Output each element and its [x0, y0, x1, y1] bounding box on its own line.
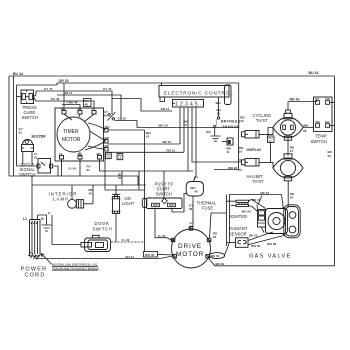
- interior lamp box top wire: [32, 184, 146, 186]
- svg-text:Y-BK 49: Y-BK 49: [66, 101, 78, 105]
- wire GY 47: [36, 87, 112, 114]
- wire igniter feed: [227, 195, 237, 247]
- wire WH 43 vertical: [144, 130, 146, 252]
- power cord label: [21, 267, 48, 279]
- svg-text:BR 15: BR 15: [163, 140, 172, 144]
- svg-text:WH: WH: [216, 101, 221, 105]
- ground GN dryness: [206, 128, 221, 141]
- svg-text:DISPLAY: DISPLAY: [247, 148, 263, 152]
- svg-text:18: 18: [217, 112, 221, 116]
- ON light top pins: [112, 194, 120, 196]
- drive motor M1: [172, 229, 211, 268]
- svg-text:57: 57: [118, 157, 122, 161]
- svg-text:WH 22: WH 22: [228, 166, 238, 170]
- press care switch: [21, 90, 38, 120]
- wire drop to timer: [63, 83, 65, 111]
- svg-text:SWITCH: SWITCH: [19, 172, 36, 177]
- svg-text:RD 42: RD 42: [290, 98, 300, 102]
- label PU 48 boxed: [84, 99, 92, 107]
- svg-text:WH 28: WH 28: [267, 242, 277, 246]
- svg-text:WH 43: WH 43: [145, 253, 155, 257]
- display connector P2: [242, 159, 260, 167]
- svg-text:10: 10: [239, 150, 243, 154]
- svg-text:LAMP: LAMP: [53, 197, 69, 202]
- node BU 44 top-right: [309, 71, 319, 75]
- power cord ground: [38, 211, 52, 231]
- cycling thermostat TH1: [253, 110, 304, 140]
- wire GY 50: [115, 117, 138, 128]
- timer assembly box: [55, 108, 104, 161]
- wire BK 32: [209, 259, 335, 267]
- svg-text:TH'ST: TH'ST: [256, 118, 268, 123]
- wire left outer border: [8, 76, 10, 176]
- svg-text:48: 48: [85, 103, 89, 107]
- wire staircase to control: [112, 99, 173, 112]
- svg-text:Y: Y: [91, 107, 93, 111]
- node BU 44 top-left: [13, 72, 23, 76]
- wire timer bottom-right drop: [105, 152, 145, 190]
- svg-text:YL 33: YL 33: [122, 238, 130, 242]
- wire RD 23 igniter to valve: [249, 198, 266, 209]
- svg-text:50: 50: [19, 131, 23, 135]
- svg-text:GN: GN: [206, 130, 211, 134]
- gas valve V1 body right: [283, 205, 301, 238]
- timer terminal pins bottom: [59, 152, 102, 159]
- wire inner top left loop: [17, 85, 58, 166]
- svg-text:YL: YL: [59, 152, 63, 156]
- svg-text:PU 46: PU 46: [51, 97, 60, 101]
- wire BK 54 with sleeve: [209, 191, 283, 258]
- wire Y-BK 49: [62, 101, 80, 111]
- thermal fuse F1: [186, 176, 217, 211]
- svg-text:61: 61: [87, 168, 91, 172]
- svg-text:GY 50: GY 50: [118, 117, 127, 121]
- wire WH control bottom: [216, 97, 221, 117]
- wire L1 riser: [31, 176, 33, 220]
- note neutral line: [41, 254, 100, 271]
- wire top border BU44 bus: [9, 75, 335, 77]
- wire RD 13: [108, 149, 184, 153]
- svg-text:DRIVE: DRIVE: [178, 243, 202, 250]
- wire buzzer bus: [17, 165, 39, 167]
- wire left inner bus: [13, 76, 15, 176]
- label PU 57 boxed: [268, 128, 275, 163]
- wire OR 20: [57, 79, 239, 132]
- svg-text:GAS VALVE: GAS VALVE: [249, 254, 292, 260]
- timer terminal pins top: [61, 107, 96, 114]
- wire display2 left: [239, 159, 242, 161]
- wire press care right: [34, 91, 37, 101]
- wire vertical x139: [138, 171, 140, 190]
- dryness sensor electrodes: [214, 117, 241, 129]
- wire strip pin1: [179, 107, 181, 144]
- wire YL 34 to motor: [155, 209, 173, 242]
- svg-text:43: 43: [146, 135, 150, 139]
- svg-text:MOTOR: MOTOR: [176, 251, 204, 258]
- wire push-start feed: [163, 171, 165, 198]
- svg-text:BK 25: BK 25: [249, 234, 258, 238]
- svg-text:WH 24: WH 24: [242, 210, 252, 214]
- svg-text:SWITCH: SWITCH: [93, 227, 113, 232]
- wire temp switch right top: [330, 102, 335, 104]
- svg-text:PU: PU: [77, 107, 81, 111]
- connector on WH43 line: [142, 199, 147, 208]
- svg-text:20: 20: [240, 119, 244, 123]
- ON light DS2: [112, 196, 135, 214]
- wire WH 24 igniter to valve: [242, 206, 259, 214]
- svg-text:58: 58: [303, 129, 307, 133]
- wire WH 43 from timer: [108, 130, 151, 139]
- svg-text:DOOR: DOOR: [95, 221, 110, 226]
- interior lamp DS1: [49, 192, 84, 209]
- wire temp switch right bottom: [330, 125, 335, 127]
- wire strip pin3: [187, 107, 189, 171]
- svg-text:PU: PU: [78, 152, 82, 156]
- control side connector: [225, 85, 232, 105]
- svg-text:YL 34: YL 34: [158, 234, 166, 238]
- svg-text:WH 16: WH 16: [159, 124, 169, 128]
- node N: [41, 217, 44, 221]
- igniter E1: [230, 200, 249, 219]
- wire BU 41: [34, 255, 173, 259]
- wire WH 16: [137, 124, 239, 128]
- wire door switch left: [52, 215, 81, 245]
- svg-text:BU 41: BU 41: [126, 255, 135, 259]
- svg-text:FUSE: FUSE: [202, 205, 213, 210]
- wire ON light bottom: [115, 214, 117, 243]
- svg-text:OR 14: OR 14: [64, 91, 73, 95]
- svg-text:BUZZER: BUZZER: [32, 135, 47, 139]
- label RD 10: [239, 146, 244, 154]
- wire ON light top: [115, 185, 117, 197]
- svg-text:48: 48: [104, 114, 108, 118]
- svg-text:35: 35: [213, 235, 217, 239]
- svg-text:SWITCH: SWITCH: [22, 115, 39, 120]
- svg-text:SWITCH: SWITCH: [311, 139, 328, 144]
- wire BK 25 sensor to valve: [248, 232, 273, 241]
- svg-text:35: 35: [34, 156, 38, 160]
- wire press care left: [17, 96, 22, 98]
- svg-text:BK 32: BK 32: [216, 262, 225, 266]
- wire timer bottom drops: [62, 159, 100, 176]
- wire cycling right to temp: [303, 124, 314, 133]
- timer line contact: [104, 110, 116, 121]
- svg-text:52: 52: [328, 154, 332, 158]
- svg-text:WH 26: WH 26: [251, 244, 261, 248]
- timer terminal pins right: [104, 125, 110, 151]
- svg-text:40: 40: [89, 192, 93, 196]
- wire radiant sensor left: [227, 242, 236, 244]
- svg-text:MOTOR: MOTOR: [62, 137, 81, 143]
- wire display2 right: [259, 162, 273, 168]
- push to start switch S3: [147, 182, 183, 209]
- wire display left bus: [239, 132, 243, 171]
- svg-text:WH: WH: [303, 124, 308, 128]
- wire YL 33 door to junction: [111, 238, 145, 242]
- control stub terminal: [160, 83, 165, 102]
- svg-text:RADIANT: RADIANT: [229, 226, 248, 231]
- svg-text:ELECTRONIC CONTROL: ELECTRONIC CONTROL: [164, 90, 234, 95]
- gas valve label: [249, 254, 292, 260]
- wire RD 21 cycling to hi-limit: [288, 138, 295, 157]
- buzzer BZ: [22, 135, 47, 152]
- svg-text:BU 44: BU 44: [13, 72, 23, 76]
- wire display1 right: [259, 128, 273, 135]
- display connector P1: [242, 131, 260, 139]
- wire RD 20: [240, 116, 245, 124]
- svg-text:BK 54: BK 54: [261, 191, 270, 195]
- svg-text:GY 47: GY 47: [44, 87, 53, 91]
- wire WH 22: [214, 166, 239, 170]
- wire BU 40 drop: [118, 171, 122, 185]
- wire cycle switch right: [53, 166, 59, 176]
- motor terminal right-upper: [207, 238, 211, 241]
- svg-text:WH: WH: [105, 125, 110, 129]
- svg-text:TEMP: TEMP: [315, 134, 327, 139]
- wire RD 42: [288, 98, 317, 110]
- label WH 43 boxed: [144, 252, 173, 258]
- connector small RD 11: [222, 138, 233, 154]
- electronic control U1: [159, 86, 234, 98]
- svg-text:40: 40: [118, 176, 122, 180]
- svg-text:TH'ST: TH'ST: [252, 179, 264, 184]
- wire hi-limit bottom RD 55: [288, 181, 295, 207]
- gas valve mid body: [266, 209, 288, 234]
- motor terminal left-lower: [173, 255, 177, 258]
- wire PU 46: [36, 97, 94, 111]
- svg-text:50: 50: [183, 123, 187, 127]
- svg-text:BK 54: BK 54: [211, 254, 220, 258]
- svg-text:YL 45: YL 45: [68, 167, 76, 171]
- label GY 50 left: [19, 127, 23, 135]
- svg-text:55: 55: [290, 196, 294, 200]
- timer motor TM: [57, 117, 90, 152]
- label PU 57 boxed small: [117, 154, 123, 161]
- svg-text:RD 13: RD 13: [167, 149, 176, 153]
- wire GY 36 fuse to motor: [189, 196, 194, 229]
- hi-limit thermostat TH2: [247, 154, 304, 184]
- svg-text:L1: L1: [23, 217, 27, 221]
- wire right border: [334, 76, 336, 266]
- svg-text:GY 47: GY 47: [103, 87, 112, 91]
- svg-text:OR 20: OR 20: [59, 79, 69, 83]
- svg-text:SENSOR: SENSOR: [229, 232, 247, 237]
- radiant sensor RS: [229, 226, 248, 247]
- svg-text:GY: GY: [194, 176, 198, 180]
- motor terminal top: [189, 227, 193, 230]
- temp switch S2: [311, 97, 333, 144]
- wire strip pin5 BK 50: [183, 107, 196, 181]
- svg-text:45: 45: [195, 190, 199, 194]
- wire lower bus y171: [100, 170, 194, 172]
- wire strip pin2: [183, 107, 185, 152]
- wire buzzer terminals: [23, 152, 38, 167]
- terminal strip pins 1 2 3 4 5: [173, 100, 204, 108]
- svg-text:BU 44: BU 44: [309, 71, 319, 75]
- timer cam lines: [64, 114, 106, 157]
- svg-text:OR 14: OR 14: [161, 107, 170, 111]
- svg-text:DRYNESS: DRYNESS: [221, 120, 241, 124]
- wire bottom-left bus: [9, 176, 138, 185]
- svg-text:LIGHT: LIGHT: [122, 201, 135, 206]
- wire WH 26 WH 28 sensor to valve: [248, 235, 286, 248]
- svg-text:12345: 12345: [175, 102, 200, 108]
- svg-text:WH: WH: [315, 120, 320, 124]
- label BK 52 on border: [328, 150, 333, 158]
- display label: [247, 148, 263, 152]
- wire lamp feeds BK 40: [72, 185, 94, 204]
- label RD 13 boxed: [106, 153, 112, 160]
- wire switch to fuse: [172, 194, 187, 213]
- svg-text:SWITCH: SWITCH: [156, 192, 173, 197]
- cycle signal switch: [19, 159, 53, 178]
- wire strip pin4: [192, 107, 242, 162]
- svg-text:IGNITER: IGNITER: [230, 214, 247, 219]
- svg-text:11: 11: [227, 150, 231, 154]
- wire RD 35 motor right-upper: [210, 213, 227, 239]
- svg-text:36: 36: [189, 207, 193, 211]
- door switch S4: [81, 221, 112, 252]
- svg-text:CORD: CORD: [25, 273, 46, 279]
- svg-text:21: 21: [290, 149, 294, 153]
- wire OR 14 upper: [57, 91, 121, 121]
- motor terminal right-lower: [206, 255, 210, 258]
- node L1: [23, 217, 27, 221]
- wire BR 15: [108, 140, 180, 144]
- wire N riser: [37, 215, 39, 220]
- svg-text:13: 13: [106, 156, 110, 160]
- power cord J1: [29, 220, 41, 260]
- motor terminal left-upper: [171, 238, 175, 241]
- svg-text:TIMER: TIMER: [63, 129, 79, 135]
- svg-text:SENSOR: SENSOR: [222, 125, 240, 129]
- gas valve coil left: [257, 196, 266, 233]
